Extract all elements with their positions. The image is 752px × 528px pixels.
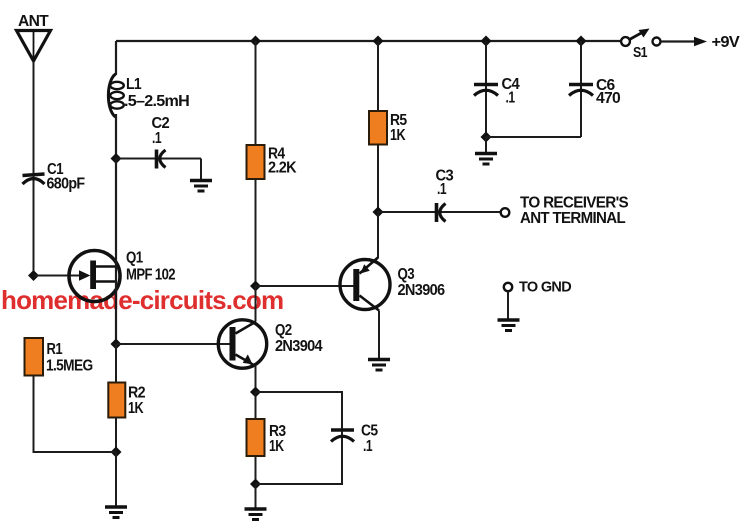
svg-text:.1: .1	[152, 130, 162, 147]
ground C4	[475, 154, 497, 165]
svg-text:MPF 102: MPF 102	[126, 267, 175, 284]
node R5 top	[373, 36, 384, 47]
transistor Q3	[340, 258, 390, 311]
wire Q2 emitter down	[255, 366, 257, 393]
svg-text:2N3906: 2N3906	[398, 282, 446, 299]
svg-text:1K: 1K	[128, 400, 144, 417]
node Q2 emitter / R3 / C5	[250, 387, 261, 398]
capacitor C6	[569, 85, 593, 96]
wire node to C2	[116, 158, 201, 160]
svg-text:homemade-circuits.com: homemade-circuits.com	[1, 285, 283, 315]
wire R1 bottom to node	[34, 376, 117, 453]
wire Q1 channel vertical	[115, 159, 117, 345]
resistor R3	[247, 419, 265, 456]
ground Q3	[368, 360, 390, 371]
svg-text:Q1: Q1	[126, 250, 143, 267]
wire Q3 emitter vertical	[377, 212, 379, 258]
switch S1	[621, 29, 660, 46]
svg-text:Q2: Q2	[275, 322, 292, 339]
wire node to ground R3	[255, 484, 257, 508]
wire S1 to +9V arrow	[661, 40, 696, 42]
svg-text:S1: S1	[633, 45, 648, 61]
node gate junction	[28, 270, 39, 281]
svg-text:680pF: 680pF	[47, 176, 85, 193]
svg-text:ANT TERMINAL: ANT TERMINAL	[520, 210, 625, 227]
wire node to Q2 collector	[255, 286, 257, 322]
antenna ANT	[17, 31, 51, 62]
svg-text:Q3: Q3	[398, 266, 415, 283]
wire L1 to node	[115, 114, 117, 159]
capacitor C5	[331, 430, 354, 442]
wire Q3 base	[256, 285, 354, 287]
svg-text:R2: R2	[128, 385, 145, 402]
ground R3	[245, 509, 267, 520]
wire R2 to bottom node	[115, 417, 117, 452]
wire antenna down	[33, 61, 35, 276]
svg-text:2N3904: 2N3904	[275, 338, 323, 355]
ground R1/R2	[105, 507, 127, 518]
node R3 bottom / C5	[250, 479, 261, 490]
wire gnd terminal down	[507, 292, 509, 320]
wire R3 to bottom node	[255, 456, 257, 484]
svg-text:.1: .1	[363, 438, 373, 455]
wire C2 to ground	[200, 159, 202, 180]
node R4 top	[250, 36, 261, 47]
node C6 top	[576, 36, 587, 47]
svg-text:R1: R1	[47, 341, 63, 358]
node L1/C2 junction	[111, 153, 122, 164]
capacitor C4	[474, 85, 498, 96]
resistor R2	[108, 383, 125, 418]
wire C4 top	[485, 41, 487, 137]
wire gate	[34, 275, 81, 277]
svg-text:.5–2.5mH: .5–2.5mH	[124, 93, 190, 110]
resistor R5	[369, 111, 387, 145]
wire emitter node to R3	[255, 392, 257, 419]
terminal receiver output	[501, 208, 510, 217]
svg-text:L1: L1	[126, 76, 142, 93]
svg-text:1K: 1K	[390, 127, 406, 144]
resistor R4	[247, 145, 265, 179]
svg-text:+9V: +9V	[712, 34, 741, 51]
svg-text:1.5MEG: 1.5MEG	[46, 358, 93, 375]
node Q1 source / Q2 base / R2	[111, 339, 122, 350]
svg-text:ANT: ANT	[18, 13, 49, 30]
node Q2 collector / Q3 base	[250, 281, 261, 292]
transistor Q1	[69, 251, 120, 302]
wire bottom node to ground	[115, 452, 117, 506]
node C4 top	[481, 36, 492, 47]
wire Q3 collector down	[378, 311, 380, 359]
svg-text:2.2K: 2.2K	[268, 160, 297, 177]
ground C2	[190, 181, 212, 192]
wire node to C3	[378, 211, 500, 213]
wire R4 column top	[255, 41, 257, 145]
terminal to gnd	[504, 283, 512, 291]
wire C6 top	[580, 41, 582, 137]
node R5 / C3 / Q3 emitter	[373, 207, 384, 218]
wire Q2 base	[116, 343, 230, 345]
capacitor C1	[23, 174, 45, 184]
wire L1 branch vertical top	[115, 41, 117, 75]
transistor Q2	[218, 320, 266, 368]
wire C4-C6 bottom link	[486, 136, 581, 138]
wire node to ground C4	[485, 137, 487, 152]
wire R5 to C3 node	[377, 145, 379, 213]
svg-text:470: 470	[596, 90, 620, 107]
node C4/C6 bottom	[481, 132, 492, 143]
resistor R1	[25, 338, 44, 376]
svg-text:C5: C5	[361, 423, 378, 440]
wire node to R2	[115, 344, 117, 383]
wire R4 to collector node	[255, 179, 257, 286]
svg-text:.1: .1	[437, 181, 447, 198]
svg-text:.1: .1	[506, 90, 516, 107]
inductor L1	[108, 74, 123, 117]
wire C5 top branch	[256, 392, 343, 484]
svg-text:1K: 1K	[269, 438, 285, 455]
wire R5 column top	[377, 41, 379, 111]
svg-text:TO GND: TO GND	[519, 279, 572, 296]
wire top bus	[116, 40, 621, 42]
ground terminal	[498, 320, 520, 331]
arrow +9V	[694, 37, 707, 46]
svg-text:TO RECEIVER'S: TO RECEIVER'S	[520, 195, 628, 212]
node R1/R2 ground junction	[111, 447, 122, 458]
capacitor C2	[157, 150, 166, 169]
capacitor C3	[437, 203, 446, 222]
